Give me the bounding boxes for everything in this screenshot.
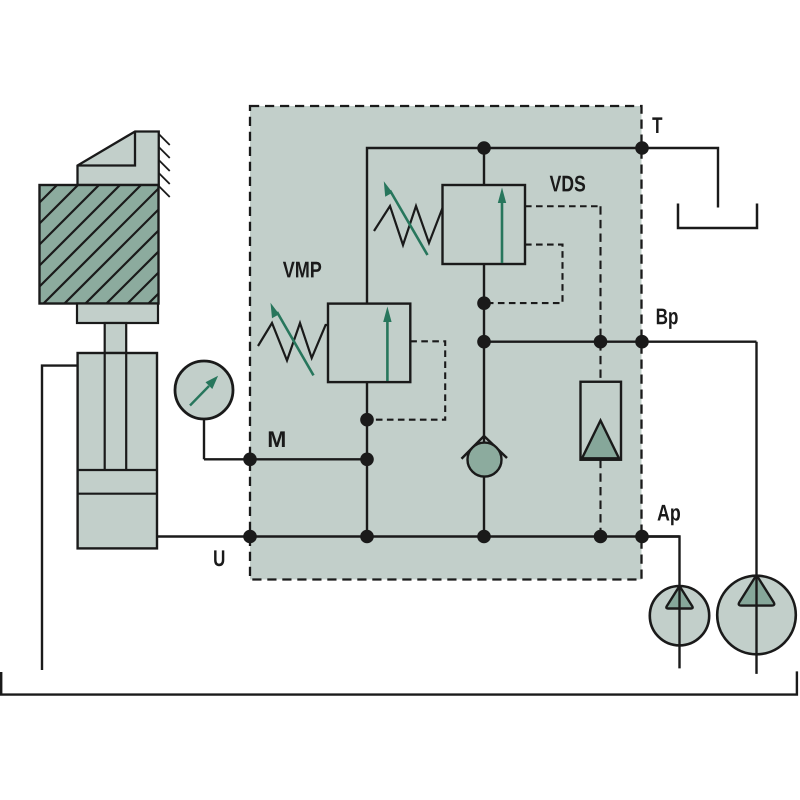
sump line — [1, 671, 797, 694]
pump small triangle — [666, 586, 692, 609]
wire Bp line — [484, 341, 757, 343]
node U port — [243, 530, 257, 544]
node M port — [243, 453, 257, 467]
tank symbol — [678, 204, 757, 229]
gauge — [175, 361, 233, 419]
node Bp dashed junction — [594, 335, 608, 349]
pump small circle — [650, 586, 709, 645]
piston plate — [77, 304, 158, 324]
valve VDS spring — [374, 206, 443, 245]
label VDS — [550, 176, 585, 192]
valve VDS internal arrow — [501, 202, 504, 263]
wire cylinder drain to sump — [42, 366, 78, 670]
label Ap — [658, 505, 681, 525]
label T — [652, 117, 662, 133]
wire T port to tank — [642, 148, 718, 208]
wire VDS riser top — [483, 148, 485, 185]
node Ap center junction — [477, 530, 491, 544]
label U — [214, 550, 224, 566]
piston rod upper — [105, 323, 127, 353]
prop element triangle — [582, 421, 619, 459]
label VMP — [283, 262, 321, 278]
node Ap dashed junction — [594, 530, 608, 544]
manifold block (dashed enclosure) — [250, 106, 642, 580]
press bracket — [78, 132, 159, 186]
wire gauge stem — [203, 419, 205, 459]
wire VMP bottom to Ap line — [366, 382, 368, 537]
node Bp port — [635, 335, 649, 349]
node U/VMP junction — [360, 530, 374, 544]
pilot dashed line below prop element to Ap — [599, 460, 601, 537]
node Ap port — [635, 530, 649, 544]
node VMP pilot junction — [360, 413, 374, 427]
gauge needle — [190, 386, 209, 406]
node M junction — [360, 453, 374, 467]
pilot dashed line VMP loop — [367, 341, 445, 419]
wire M line gauge to VMP riser — [204, 458, 367, 460]
pump large triangle — [739, 575, 775, 606]
press mass block — [40, 185, 268, 308]
valve VMP internal arrow — [386, 321, 389, 381]
label M — [269, 431, 285, 447]
wire T line from VMP riser to T port — [367, 148, 642, 304]
cylinder body — [78, 353, 157, 548]
check valve ball — [468, 443, 502, 477]
pump large circle — [717, 576, 796, 655]
node Bp junction — [477, 335, 491, 349]
label Bp — [657, 309, 678, 329]
piston lines — [78, 470, 157, 494]
pilot dashed line VDS upper to prop element — [525, 205, 601, 207]
node VDS pilot junction — [477, 296, 491, 310]
valve VMP adjust arrow — [277, 312, 314, 375]
wire U / Ap bottom line — [157, 535, 680, 537]
pilot dashed line VDS lower loop — [484, 245, 563, 304]
rod inside cylinder — [105, 353, 127, 470]
wall hatching — [159, 134, 170, 197]
valve VMP spring — [258, 323, 328, 361]
check valve seat — [462, 436, 508, 459]
node T junction — [477, 141, 491, 155]
wire Ap to small pump — [641, 537, 679, 669]
valve VDS body — [443, 185, 526, 264]
prop element body — [581, 382, 622, 460]
valve VMP body — [328, 304, 410, 383]
wire Bp down through large pump — [755, 342, 757, 674]
node T port — [635, 141, 649, 155]
wire VDS bottom to Ap line — [483, 264, 485, 537]
valve VDS adjust arrow — [390, 191, 428, 256]
